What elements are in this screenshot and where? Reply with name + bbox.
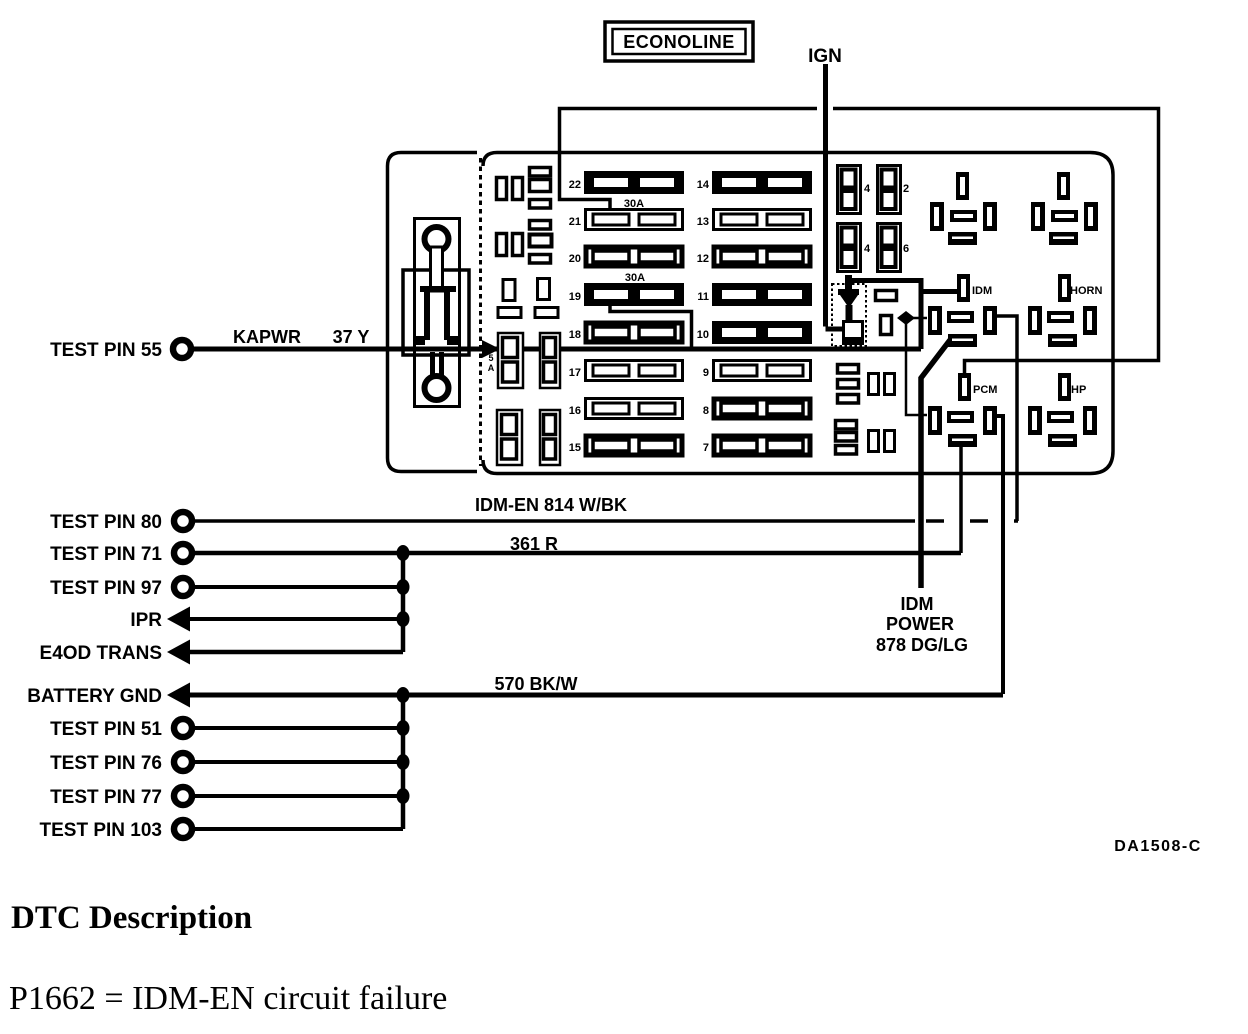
mini fuse G2 (836, 433, 857, 442)
svg-text:9: 9 (703, 367, 709, 379)
mini fuse G1 (836, 421, 857, 430)
svg-text:HP: HP (1071, 384, 1086, 396)
svg-text:4: 4 (864, 183, 871, 195)
terminal TEST PIN 51 (174, 719, 192, 737)
svg-text:4: 4 (864, 243, 871, 255)
svg-text:TEST PIN 97: TEST PIN 97 (50, 578, 162, 599)
mini fuse G4 (869, 431, 879, 452)
terminal TEST PIN 80 (174, 512, 192, 530)
mini fuse B3 (530, 200, 551, 209)
svg-text:E4OD TRANS: E4OD TRANS (40, 643, 162, 664)
relay HORN (1028, 274, 1102, 347)
wire TEST PIN 97 (193, 585, 403, 589)
wire dashed IDM-EN section (926, 519, 1018, 523)
maxi fuse 6 (878, 224, 901, 272)
fuse 21 (586, 210, 683, 230)
wire KAPWR from TEST PIN 55 (192, 347, 921, 352)
svg-text:18: 18 (569, 329, 581, 341)
fuse panel main box (483, 153, 1113, 474)
terminal TEST PIN 97 (174, 578, 192, 596)
junction dot 76 (397, 754, 410, 770)
mini fuse F4 (869, 374, 879, 395)
wire TEST PIN 51 (193, 726, 403, 730)
fuse 8 (714, 399, 810, 418)
fuse block D2 (540, 333, 560, 388)
mini fuse A2 (513, 178, 523, 200)
svg-text:13: 13 (697, 216, 709, 228)
junction diamond (897, 311, 915, 325)
svg-text:TEST PIN 103: TEST PIN 103 (40, 820, 163, 841)
svg-text:20: 20 (569, 253, 581, 265)
mini fuse B4 (530, 221, 551, 230)
wire 361 R (193, 551, 961, 556)
svg-text:PCM: PCM (973, 384, 997, 396)
fuse 19 (584, 283, 684, 306)
mini fuse A3 (497, 234, 507, 256)
terminal BATTERY GND arrow (167, 683, 190, 708)
svg-text:16: 16 (569, 405, 581, 417)
fuse block D1 (5A) (498, 333, 523, 388)
relay socket upper-right (1031, 172, 1098, 245)
fuse 13 (714, 210, 811, 230)
svg-text:TEST PIN 55: TEST PIN 55 (50, 340, 162, 361)
junction dot 51 (397, 720, 410, 736)
fuse 14 (712, 171, 812, 194)
svg-text:5: 5 (488, 353, 493, 363)
mini fuse C1 (503, 280, 515, 301)
fuse 20 (586, 247, 682, 266)
svg-text:P1662 = IDM-EN circuit failure: P1662 = IDM-EN circuit failure (9, 980, 447, 1017)
svg-text:7: 7 (703, 442, 709, 454)
fuse panel key compartment box (388, 153, 478, 472)
econoline label box (605, 22, 753, 61)
svg-text:19: 19 (569, 291, 581, 303)
wire 570 BK/W riser from PCM right pin (996, 416, 1003, 694)
svg-text:8: 8 (703, 405, 709, 417)
svg-text:TEST PIN 80: TEST PIN 80 (50, 512, 162, 533)
mini fuse F3 (838, 395, 859, 404)
svg-text:BATTERY GND: BATTERY GND (27, 686, 162, 707)
dashed shared edge between compartments (479, 158, 482, 466)
wire TEST PIN 76 (193, 760, 403, 764)
wire big loop from fuse 21 to PCM relay coil (560, 109, 1159, 375)
svg-text:6: 6 (903, 243, 909, 255)
mini fuse B5 (530, 235, 552, 247)
svg-text:570 BK/W: 570 BK/W (494, 674, 577, 694)
svg-text:KAPWR: KAPWR (233, 327, 301, 347)
wire IPR (187, 617, 403, 621)
mini fuse B2 (530, 180, 551, 192)
svg-text:HORN: HORN (1070, 285, 1102, 297)
svg-text:IGN: IGN (808, 46, 842, 67)
wire IDM left pin to PCM left pin (906, 318, 927, 415)
svg-text:14: 14 (697, 179, 710, 191)
terminal E4OD arrow (167, 640, 190, 665)
fuse 17 (586, 361, 683, 381)
fuse 15 (586, 436, 682, 455)
svg-text:12: 12 (697, 253, 709, 265)
svg-text:A: A (488, 363, 495, 373)
svg-text:DTC Description: DTC Description (11, 900, 252, 936)
junction bus upper (401, 553, 406, 652)
relay HP (1028, 373, 1097, 447)
terminal TEST PIN 103 (174, 820, 192, 838)
mini fuse A4 (513, 234, 523, 256)
mini fuse H2 (881, 316, 892, 335)
fuse 16 (586, 399, 683, 419)
junction bus lower (401, 695, 406, 829)
mini fuse B1 (530, 168, 551, 177)
fuse block E1 (497, 410, 522, 465)
maxi fuse 4b (838, 224, 861, 272)
svg-text:17: 17 (569, 367, 581, 379)
svg-text:37 Y: 37 Y (333, 327, 370, 347)
junction dot 97 (397, 579, 410, 595)
wire from fuse 19 to KAPWR rail (610, 293, 692, 349)
relay IDM (928, 274, 997, 347)
svg-text:TEST PIN 71: TEST PIN 71 (50, 544, 162, 565)
relay socket upper-left (930, 172, 997, 245)
terminal TEST PIN 55 (173, 340, 191, 358)
svg-text:878 DG/LG: 878 DG/LG (876, 635, 968, 655)
mini fuse F1 (838, 365, 859, 374)
wire riser KAPWR to IDM relay (848, 281, 957, 350)
wire IDM right pin to dashed net (996, 316, 1017, 521)
ignition feed connector (832, 275, 866, 346)
junction dot IPR (397, 611, 410, 627)
junction dot 77 (397, 788, 410, 804)
relay PCM (928, 373, 997, 447)
wire 570 BK/W (187, 693, 1003, 698)
svg-text:IDM-EN 814 W/BK: IDM-EN 814 W/BK (475, 495, 627, 515)
mini fuse G5 (885, 431, 895, 452)
fuse 22 (584, 171, 684, 194)
arrowhead into fuse block (482, 340, 500, 358)
fuse 11 (712, 283, 812, 306)
svg-text:11: 11 (697, 291, 709, 303)
svg-text:10: 10 (697, 329, 709, 341)
fuse 7 (714, 436, 810, 455)
svg-text:POWER: POWER (886, 614, 954, 634)
fuse 9 (714, 361, 811, 381)
fuse 10 (712, 321, 812, 344)
maxi fuse 2 (878, 166, 901, 214)
terminal TEST PIN 71 (174, 544, 192, 562)
svg-text:IPR: IPR (130, 610, 162, 631)
svg-text:IDM: IDM (901, 594, 934, 614)
svg-text:30A: 30A (625, 272, 645, 284)
wire TEST PIN 103 (193, 827, 403, 831)
ignition key symbol (403, 219, 469, 407)
wire TEST PIN 77 (193, 794, 403, 798)
fuse 12 (714, 247, 810, 266)
svg-text:IDM: IDM (972, 285, 992, 297)
wire 361 R riser to PCM (959, 446, 963, 553)
junction dot 71 (397, 545, 410, 561)
svg-text:ECONOLINE: ECONOLINE (623, 32, 735, 52)
mini fuse G3 (836, 446, 857, 455)
mini fuse C3 (498, 308, 521, 318)
mini fuse A1 (497, 178, 507, 200)
svg-text:2: 2 (903, 183, 909, 195)
svg-text:22: 22 (569, 179, 581, 191)
terminal IPR arrow (167, 607, 190, 632)
maxi fuse 4 (838, 166, 861, 214)
mini fuse C4 (535, 308, 558, 318)
svg-text:15: 15 (569, 442, 581, 454)
terminal TEST PIN 76 (174, 753, 192, 771)
mini fuse C2 (538, 279, 550, 300)
mini fuse B6 (530, 255, 551, 264)
terminal TEST PIN 77 (174, 787, 192, 805)
fuse block E2 (540, 410, 560, 465)
svg-text:DA1508-C: DA1508-C (1114, 838, 1202, 855)
svg-text:361 R: 361 R (510, 534, 558, 554)
wire IDM POWER drop (921, 340, 950, 588)
svg-text:TEST PIN 51: TEST PIN 51 (50, 719, 162, 740)
fuse 18 (586, 323, 682, 342)
wire IGN vertical drop (826, 64, 845, 329)
wire IDM-EN 814 W/BK (193, 519, 915, 523)
svg-text:21: 21 (569, 216, 581, 228)
mini fuse F2 (838, 380, 859, 389)
svg-text:TEST PIN 76: TEST PIN 76 (50, 753, 162, 774)
mini fuse F5 (885, 374, 895, 395)
wire E4OD (187, 650, 403, 655)
svg-text:TEST PIN 77: TEST PIN 77 (50, 787, 162, 808)
mini fuse H1 (876, 291, 897, 301)
junction dot GND (397, 687, 410, 703)
